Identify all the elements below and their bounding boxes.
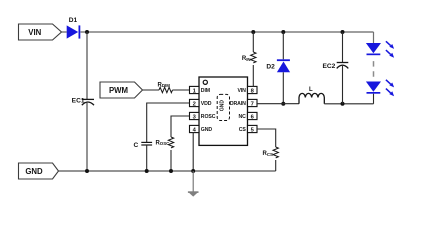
resistor RDIM [158, 83, 173, 93]
svg-text:PWM: PWM [109, 86, 128, 95]
wire EC2 bottom [342, 66, 344, 104]
capacitor EC2 [322, 63, 348, 70]
wire top rail [62, 31, 374, 33]
node EC1 gnd [85, 169, 89, 173]
wire L to LED return [324, 103, 373, 105]
pin 2 [190, 99, 200, 107]
node ROSC gnd [169, 169, 173, 173]
svg-text:VDD: VDD [201, 101, 212, 107]
svg-text:VIN: VIN [237, 88, 246, 94]
svg-text:CS: CS [239, 127, 247, 133]
LED LED2 [366, 82, 381, 94]
svg-text:GND: GND [219, 100, 225, 112]
svg-text:RDIM: RDIM [158, 83, 171, 89]
svg-text:GND: GND [201, 127, 213, 133]
wire GND pin4 down [192, 133, 194, 171]
input tag VIN [19, 24, 62, 40]
pin 7 [248, 99, 258, 107]
svg-text:NC: NC [239, 114, 247, 120]
svg-text:C: C [134, 142, 139, 149]
pin 8 [248, 86, 258, 94]
LED1 arrow b [386, 50, 394, 58]
resistor RCS [263, 147, 279, 158]
pin 3 [190, 112, 200, 120]
node D2 drain [281, 102, 285, 106]
wire ROSC pin3 branch [171, 116, 190, 137]
wire RIN to pin8 [252, 65, 254, 86]
wire ground rail [59, 170, 276, 172]
wire C to gnd rail [146, 145, 148, 171]
svg-text:GND: GND [25, 167, 43, 176]
node C gnd [145, 169, 149, 173]
wire RIN top [252, 32, 254, 52]
wire VDD pin2 branch [147, 103, 190, 142]
capacitor C [134, 142, 153, 149]
wire LED return [373, 94, 375, 104]
svg-text:ROSC: ROSC [155, 141, 170, 147]
svg-text:ROSC: ROSC [201, 114, 216, 120]
wire CS pin5 branch [257, 129, 276, 147]
node after D1 [85, 30, 89, 34]
svg-text:D1: D1 [69, 17, 78, 24]
svg-text:2: 2 [193, 101, 196, 107]
pin 5 [248, 125, 258, 133]
wire EC1 to gnd rail [86, 103, 88, 171]
wire ROSC to gnd rail [170, 150, 172, 171]
inductor L [299, 87, 324, 104]
svg-text:DRAIN: DRAIN [230, 101, 246, 107]
svg-text:RCS: RCS [263, 151, 274, 157]
input tag GND [19, 163, 59, 179]
svg-text:D2: D2 [266, 63, 275, 70]
node EC2 bottom [341, 102, 345, 106]
node pin4 gnd [191, 169, 195, 173]
wire D2 top [282, 32, 284, 59]
wire LED feed [373, 32, 375, 43]
ground symbol [188, 171, 199, 197]
node D2 top [281, 30, 285, 34]
wire EC2 top [342, 32, 344, 62]
svg-text:L: L [309, 87, 313, 93]
wire VIN branch down [86, 32, 88, 99]
node RIN top [251, 30, 255, 34]
svg-text:DIM: DIM [201, 88, 210, 94]
LED2 arrow a [386, 80, 394, 88]
LED1 arrow a [386, 41, 394, 49]
wire dashed LED string [373, 57, 375, 82]
pin 4 [190, 125, 200, 133]
resistor RIN [242, 52, 256, 63]
svg-text:RIN: RIN [242, 56, 251, 62]
svg-text:EC1: EC1 [72, 97, 85, 104]
svg-text:7: 7 [251, 101, 254, 107]
resistor ROSC [155, 137, 173, 148]
input tag PWM [100, 82, 143, 98]
wire D2 to drain line [282, 72, 284, 104]
diode D2 [266, 59, 290, 72]
LED2 arrow b [386, 89, 394, 97]
diode D1 [67, 17, 81, 39]
capacitor EC1 [72, 97, 94, 105]
wire RCS to gnd rail [275, 160, 277, 171]
node EC2 top [341, 30, 345, 34]
svg-text:EC2: EC2 [322, 63, 335, 70]
pin 6 [248, 112, 258, 120]
LED LED1 [366, 43, 381, 55]
IC thermal pad GND [217, 94, 229, 120]
op IC body [199, 77, 248, 145]
wire RDIM to pin1 [173, 89, 190, 91]
svg-text:VIN: VIN [28, 28, 41, 37]
pin 1 [190, 86, 200, 94]
wire drain line [257, 103, 299, 105]
wire PWM to RDIM [143, 89, 160, 91]
